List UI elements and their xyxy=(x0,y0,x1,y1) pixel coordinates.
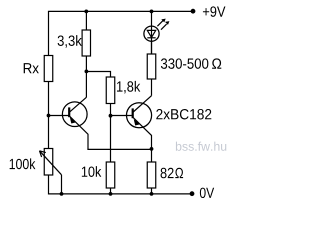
wire left drop from rail to Rx xyxy=(48,11,50,56)
label Rx xyxy=(24,63,39,73)
label 10k xyxy=(82,166,101,177)
wire 10k bottom to ground rail xyxy=(110,188,112,194)
transistor Q2 emitter lead xyxy=(133,118,151,150)
transistor Q2 emitter arrow xyxy=(134,119,141,125)
label +9V xyxy=(203,6,226,16)
label ohm sign of 82 xyxy=(175,168,183,178)
resistor R1 3,3k xyxy=(82,30,90,56)
wire 3,3k branch from rail xyxy=(85,11,87,30)
junction dot collector node A xyxy=(85,70,89,74)
wire Q1 base from left rail node xyxy=(49,115,69,117)
resistor Rx xyxy=(44,56,53,82)
wire LED cathode to 330-500 resistor xyxy=(151,41,153,54)
potentiometer wiper arrow shaft xyxy=(40,151,62,175)
terminal dot +9V xyxy=(191,9,196,14)
transistor Q1 collector lead xyxy=(70,97,87,112)
transistor Q1 emitter lead xyxy=(70,116,88,149)
wire pot wiper to ground rail xyxy=(61,175,63,194)
LED D1 anode triangle xyxy=(147,30,155,37)
transistor Q1 body circle xyxy=(62,102,87,127)
junction dot ground / 10k xyxy=(109,192,113,196)
transistor Q2 base bar xyxy=(132,108,134,118)
wire 82 ohm bottom to ground rail xyxy=(151,188,153,194)
junction dot Q1 base node xyxy=(47,114,51,118)
LED D1 cathode bar xyxy=(147,37,155,39)
transistor Q2 body circle xyxy=(127,103,152,128)
transistor Q1 base bar xyxy=(68,107,70,117)
junction dot rail / 3,3k xyxy=(84,10,88,14)
wire top supply rail xyxy=(49,10,193,12)
resistor R3 10k xyxy=(106,162,115,188)
label 330-500 value xyxy=(161,58,208,68)
junction dot Q2 base node xyxy=(109,114,113,118)
wire 330-500 bottom to Q2 collector xyxy=(151,79,153,96)
transistor Q1 emitter arrow xyxy=(70,117,77,124)
resistor R5 82 ohm xyxy=(147,162,156,188)
wire 1,8k bottom through Q2 base node to 10k top xyxy=(110,104,112,163)
LED light arrow 2 shaft xyxy=(161,24,167,30)
label 0V xyxy=(200,188,214,198)
wire LED branch from rail xyxy=(151,11,153,26)
wire Rx bottom to base node xyxy=(48,82,50,149)
terminal dot 0V xyxy=(190,191,195,196)
resistor R2 1,8k xyxy=(106,77,115,104)
label 1,8k xyxy=(117,81,140,94)
junction dot ground / wiper xyxy=(60,192,64,196)
potentiometer P 100k body xyxy=(44,149,53,176)
junction dot rail / LED xyxy=(150,10,154,14)
wire through LED xyxy=(151,26,153,54)
wire pot bottom to ground rail xyxy=(48,175,50,195)
wire collector node to 1,8k top xyxy=(86,72,110,78)
potentiometer arrow barb down xyxy=(40,151,42,157)
watermark bss.fw.hu xyxy=(176,142,226,151)
label 3,3k xyxy=(58,35,82,48)
resistor R4 330-500 ohm xyxy=(147,54,156,79)
LED light arrow 1 shaft xyxy=(157,21,163,27)
wire Q1 emitter to shared emitter node xyxy=(87,148,151,150)
wire Q2 base from divider node xyxy=(111,115,132,117)
wire 3,3k bottom to collector node xyxy=(85,56,87,97)
LED light arrow 1 head xyxy=(161,19,165,23)
potentiometer arrow barb right xyxy=(40,151,46,153)
wire emitter node to 82 ohm xyxy=(151,149,153,162)
junction dot shared emitter node xyxy=(150,147,154,151)
transistor Q2 collector lead xyxy=(133,96,151,112)
label 100k xyxy=(10,158,36,169)
label ohm sign of 330-500 xyxy=(212,58,221,68)
label 2xBC182 xyxy=(156,109,211,119)
wire bottom ground rail xyxy=(49,193,193,195)
LED D1 body circle xyxy=(144,26,159,41)
label 82 value xyxy=(161,168,174,178)
junction dot ground / 82 ohm xyxy=(150,192,154,196)
LED light arrow 2 head xyxy=(165,21,169,25)
